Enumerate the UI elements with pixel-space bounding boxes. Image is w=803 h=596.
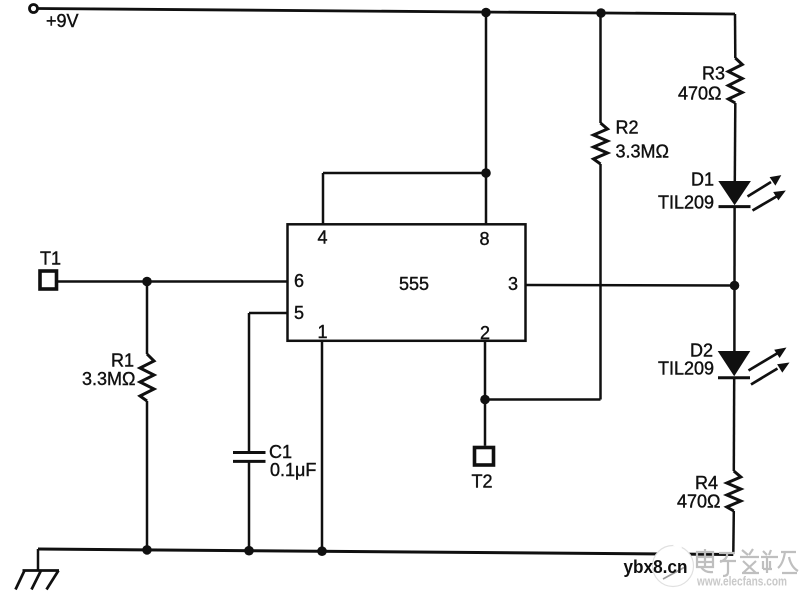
wire D1 to node [733, 207, 736, 351]
svg-text:T1: T1 [40, 249, 61, 269]
node junction top rail / R2 column [596, 8, 606, 18]
svg-text:R1: R1 [111, 351, 134, 371]
svg-text:ybx8.cn: ybx8.cn [624, 557, 688, 577]
LED D2 [658, 341, 790, 385]
resistor R3 [678, 58, 742, 104]
wire pin 1 to ground rail [321, 341, 324, 551]
svg-text:5: 5 [294, 303, 304, 323]
node junction pin4 wire / pin8 wire [481, 168, 491, 178]
node junction R1 / rail [142, 545, 152, 555]
wire pin 4 vertical into IC [322, 173, 325, 225]
wire bottom ground rail [38, 549, 733, 555]
svg-text:3: 3 [508, 274, 518, 294]
node junction C1 / rail [244, 546, 254, 556]
node junction pin3 / LED column [730, 281, 740, 291]
resistor R2 [594, 14, 669, 400]
svg-text:470Ω: 470Ω [678, 84, 722, 104]
svg-text:T2: T2 [472, 472, 493, 492]
svg-text:470Ω: 470Ω [677, 492, 721, 512]
wire pin 2 down to T2 [484, 341, 487, 446]
svg-text:C1: C1 [269, 442, 292, 462]
IC U1 555 timer body [288, 224, 526, 340]
svg-text:D2: D2 [690, 341, 713, 361]
wire R3 to D1 [734, 103, 737, 181]
node junction pin1 / rail [317, 546, 327, 556]
svg-text:3.3MΩ: 3.3MΩ [82, 369, 135, 389]
wire from top rail down to pin 8 [485, 13, 488, 225]
node junction pin2 / R2 wire [480, 395, 490, 405]
wire top supply rail [38, 9, 735, 15]
svg-text:www.elecfans.com: www.elecfans.com [696, 574, 787, 589]
wire R4 to bottom rail corner [732, 511, 735, 554]
svg-text:555: 555 [399, 274, 429, 294]
watermark logo white blob [653, 538, 694, 587]
svg-text:TIL209: TIL209 [658, 359, 714, 379]
watermark chinese characters (ghost outline style) [697, 549, 798, 576]
wire pin2 node to R2 bottom [485, 398, 601, 401]
power terminal +9V [30, 5, 79, 32]
svg-text:D1: D1 [691, 170, 714, 190]
terminal T1 [40, 249, 61, 290]
ground symbol [16, 549, 60, 590]
svg-text:R2: R2 [616, 118, 639, 138]
svg-text:2: 2 [480, 323, 490, 343]
svg-text:6: 6 [294, 271, 304, 291]
svg-text:R3: R3 [702, 64, 725, 84]
svg-text:0.1μF: 0.1μF [270, 460, 316, 480]
wire T1 to pin 6 [58, 280, 288, 283]
node junction T1 wire / R1 [142, 277, 152, 287]
wire pin 5 to C1 [249, 313, 288, 453]
svg-text:R4: R4 [695, 473, 718, 493]
resistor R1 [82, 282, 154, 550]
wire pin 4 horizontal [323, 172, 486, 175]
wire pin 3 to LED column [526, 284, 735, 287]
svg-text:4: 4 [318, 228, 328, 248]
LED D1 [658, 170, 786, 213]
wire D2 to R4 [733, 378, 736, 471]
capacitor C1 [233, 442, 316, 551]
svg-text:8: 8 [480, 229, 490, 249]
wire top rail corner down to R3 [734, 14, 737, 58]
node junction top rail / pin8 column [481, 8, 491, 18]
resistor R4 [677, 471, 741, 512]
svg-text:3.3MΩ: 3.3MΩ [616, 142, 669, 162]
svg-text:TIL209: TIL209 [658, 193, 714, 213]
svg-text:+9V: +9V [46, 11, 79, 31]
terminal T2 [472, 448, 494, 492]
svg-text:1: 1 [318, 322, 328, 342]
